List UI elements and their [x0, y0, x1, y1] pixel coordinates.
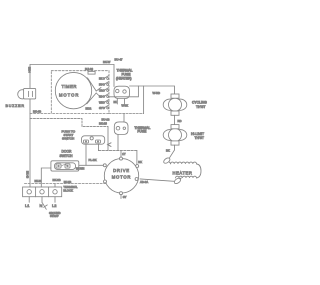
timer contact 3	[103, 88, 109, 92]
svg-text:RD: RD	[178, 119, 182, 123]
svg-text:DRIVE: DRIVE	[113, 168, 130, 173]
timer contact 2	[103, 82, 109, 86]
wire door switch left to N terminal	[41, 168, 51, 187]
timer contact 4	[103, 94, 109, 98]
svg-text:BU-3B: BU-3B	[64, 181, 72, 184]
svg-text:N: N	[40, 203, 43, 208]
label TIMER MOTOR	[59, 84, 80, 97]
svg-text:AB-3A: AB-3A	[140, 180, 148, 184]
svg-text:TH'ST: TH'ST	[196, 105, 205, 109]
terminal L2 lead	[54, 197, 56, 203]
svg-text:BK-W: BK-W	[103, 60, 111, 64]
svg-text:BK-R: BK-R	[86, 108, 92, 111]
label CYCLING TH'ST	[192, 101, 207, 109]
svg-text:SWITCH: SWITCH	[60, 154, 74, 158]
buzzer BZ1	[18, 88, 36, 99]
timer contact 5	[103, 100, 109, 104]
svg-text:L1: L1	[25, 203, 30, 208]
wire riser from rail to thermal fuse (heater)	[113, 65, 115, 87]
heater ring terminal top	[163, 157, 171, 164]
svg-text:BK: BK	[114, 101, 118, 104]
svg-text:RD: RD	[99, 96, 103, 99]
svg-text:TH'ST: TH'ST	[195, 136, 204, 140]
timer top terminal block	[88, 71, 95, 74]
wire top rail BK-W	[30, 64, 114, 66]
svg-text:BU-47: BU-47	[115, 57, 123, 61]
svg-text:BK: BK	[138, 160, 142, 164]
svg-text:BK-4B: BK-4B	[26, 171, 29, 179]
wire branch down to timer contacts	[109, 86, 139, 97]
svg-text:BK-38: BK-38	[35, 180, 43, 183]
svg-text:W-RD: W-RD	[153, 91, 161, 95]
label DOOR SWITCH	[60, 150, 74, 158]
wire buzzer top lead	[29, 65, 31, 89]
svg-text:WH: WH	[99, 102, 103, 105]
label THERMAL FUSE (HEATER)	[116, 69, 133, 81]
svg-text:GY: GY	[123, 196, 127, 199]
wire fuse F1 to cycling thermostat W-RD	[130, 86, 175, 94]
svg-text:W-BK: W-BK	[122, 105, 129, 108]
wire console rail right segment	[109, 113, 144, 115]
wire heater to drive motor AB-3A	[140, 179, 174, 181]
terminal N lead	[41, 197, 43, 203]
svg-text:BK: BK	[166, 149, 170, 153]
heater HTR1 coil	[171, 162, 202, 178]
wire hi-limit to heater BK	[170, 145, 175, 158]
svg-text:GY: GY	[99, 107, 103, 110]
svg-text:FUSE: FUSE	[137, 130, 147, 134]
hi-limit thermostat S2	[163, 125, 187, 145]
svg-text:BK-4B: BK-4B	[33, 110, 41, 114]
svg-text:SWITCH: SWITCH	[62, 137, 74, 141]
svg-text:BK-WH: BK-WH	[76, 167, 85, 170]
wire lower console run BK-15	[30, 119, 108, 127]
svg-text:TIMER: TIMER	[62, 84, 77, 89]
timer enclosure (dashed box)	[51, 71, 109, 114]
label TERMINAL BLOCK	[63, 185, 78, 192]
push-to-start switch S3	[82, 136, 112, 147]
svg-text:STRAP: STRAP	[50, 214, 59, 218]
svg-text:OR: OR	[99, 90, 103, 93]
wire console rail BK-4B left segment	[30, 113, 51, 115]
svg-text:BK: BK	[99, 78, 103, 81]
svg-text:BU-36: BU-36	[85, 67, 93, 71]
svg-text:HEATER: HEATER	[173, 171, 193, 176]
wire PTS right lead	[98, 144, 100, 150]
label THERMAL FUSE	[134, 126, 150, 134]
cycling thermostat S1	[163, 94, 187, 115]
drive motor M2	[103, 157, 138, 195]
wire motor top stub	[120, 151, 122, 158]
thermal fuse F2	[114, 122, 128, 135]
wire fuse F2 to motor rail	[117, 135, 119, 151]
wire motor bottom stub	[120, 195, 122, 199]
svg-text:1T: 1T	[122, 152, 126, 156]
wire L2 lead top	[54, 184, 56, 187]
wire L1 drop buzzer to terminal block	[29, 99, 31, 187]
heater ring terminal bottom	[173, 177, 181, 185]
svg-text:BLOCK: BLOCK	[63, 189, 73, 193]
svg-text:MOTOR: MOTOR	[112, 175, 132, 180]
svg-text:BK-15: BK-15	[99, 122, 107, 126]
svg-text:PL-BK: PL-BK	[89, 158, 97, 162]
wire PTS left lead	[85, 144, 87, 165]
svg-text:L2: L2	[52, 203, 57, 208]
svg-text:MOTOR: MOTOR	[59, 92, 80, 97]
wire riser rail to fuse F2	[123, 114, 125, 123]
terminal block TB1	[23, 187, 62, 197]
label GROUND STRAP	[49, 211, 61, 218]
thermal fuse (heater) F1	[114, 86, 130, 104]
label DRIVE MOTOR	[112, 168, 132, 180]
ground strap symbol	[42, 202, 47, 209]
timer contact 6	[103, 105, 109, 109]
svg-text:BU: BU	[99, 84, 103, 87]
wire between thermostats RD	[174, 115, 176, 124]
timer contact 1	[103, 76, 109, 80]
wire motor top rail	[99, 150, 137, 152]
wire bottom cabinet rail	[25, 183, 107, 185]
label PUSH TO START SWITCH	[62, 129, 76, 140]
wire motor right riser	[136, 151, 138, 166]
svg-text:BUZZER: BUZZER	[6, 104, 25, 108]
terminal L1 lead	[28, 197, 30, 203]
svg-text:(HEATER): (HEATER)	[116, 77, 132, 81]
wire branch down to console rail	[143, 86, 145, 114]
label HI-LIMIT TH'ST	[191, 132, 204, 140]
svg-text:BK-3B: BK-3B	[53, 178, 61, 182]
door switch S4	[51, 161, 79, 171]
timer motor M1	[55, 72, 101, 108]
wire door switch to motor PL-BK	[79, 164, 104, 166]
